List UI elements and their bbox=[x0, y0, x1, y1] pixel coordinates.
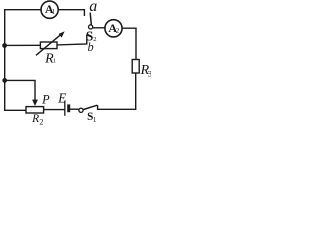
svg-text:R: R bbox=[31, 113, 39, 125]
wire left vertical bbox=[4, 10, 6, 111]
svg-text:P: P bbox=[41, 92, 50, 106]
ammeter A2 bbox=[105, 20, 122, 37]
resistor R3 bbox=[132, 60, 152, 79]
switch S1 bbox=[79, 105, 97, 124]
wire R2 to battery bbox=[44, 109, 64, 111]
wire R3 down to bottom right corner and left to S1 bbox=[98, 73, 136, 109]
svg-text:1: 1 bbox=[52, 9, 55, 16]
svg-text:1: 1 bbox=[93, 116, 97, 124]
wire top left bbox=[5, 9, 41, 11]
wire A1 to terminal a stub bbox=[58, 10, 84, 16]
wire R1 branch right to terminal b stub bbox=[57, 35, 87, 45]
svg-text:2: 2 bbox=[39, 118, 43, 126]
rheostat R2 bbox=[26, 107, 44, 127]
svg-text:3: 3 bbox=[148, 69, 151, 79]
svg-text:1: 1 bbox=[53, 59, 56, 65]
svg-text:b: b bbox=[88, 40, 94, 54]
junction node dot lower (slider feed) bbox=[2, 78, 7, 83]
svg-text:2: 2 bbox=[116, 28, 120, 35]
svg-text:2: 2 bbox=[93, 36, 96, 43]
wire A2 to R3 bbox=[122, 28, 136, 59]
junction node dot upper (R1 branch) bbox=[2, 43, 7, 48]
battery E bbox=[57, 90, 70, 115]
svg-text:E: E bbox=[57, 90, 67, 105]
ammeter A1 bbox=[41, 1, 58, 18]
wire bottom left to R2 bbox=[5, 109, 26, 111]
slider P arrow bbox=[32, 80, 50, 106]
wire R1 branch left bbox=[5, 44, 41, 46]
wire battery to S1 bbox=[70, 108, 79, 110]
switch S2 bbox=[86, 13, 97, 44]
wire slider feed horizontal bbox=[5, 79, 35, 81]
wire S2 pivot to A2 bbox=[93, 27, 105, 29]
resistor R1 (variable, arrow) bbox=[36, 31, 65, 66]
